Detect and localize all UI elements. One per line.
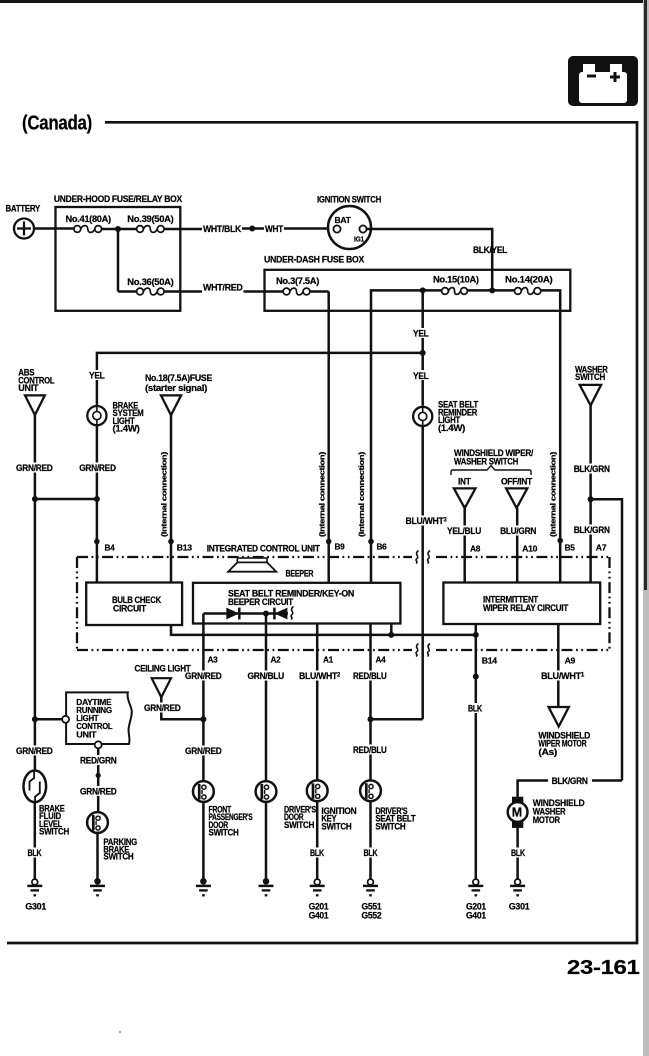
ground (driver door, case)	[259, 878, 274, 895]
node B14 splice	[473, 674, 479, 680]
ground G201 G401 (ignition)	[309, 879, 329, 920]
wire brake fluid switch to ground	[34, 802, 37, 879]
svg-text:UNDER-DASH FUSE BOX: UNDER-DASH FUSE BOX	[264, 255, 364, 265]
node pin B4	[94, 539, 100, 545]
break mark diode bus internal	[291, 607, 294, 620]
svg-text:(Internal connection): (Internal connection)	[160, 451, 169, 537]
svg-text:B6: B6	[377, 542, 388, 552]
svg-text:B5: B5	[565, 543, 576, 553]
ignition switch SW1	[317, 195, 381, 250]
node GRN/RED right	[94, 496, 100, 502]
wire brake light to B4	[96, 425, 99, 582]
fuse No.14(20A)	[505, 275, 553, 295]
wire WHT/RED into under-dash box	[244, 290, 284, 293]
svg-text:No.14(20A): No.14(20A)	[505, 275, 553, 285]
svg-text:YEL: YEL	[413, 371, 429, 381]
svg-text:SWITCH: SWITCH	[375, 821, 405, 831]
svg-text:(As): (As)	[538, 747, 557, 757]
wire label GRN/RED (B4 branch)	[78, 463, 118, 473]
wire ABS to junction	[34, 415, 37, 499]
svg-text:BAT: BAT	[335, 216, 351, 225]
svg-text:BLK: BLK	[364, 848, 379, 858]
svg-text:WHT/RED: WHT/RED	[203, 283, 243, 293]
wire BLU/WHT3 to A4	[371, 718, 423, 721]
windshield wiper/washer switch SW2	[451, 448, 534, 508]
wire YEL drop from under-dash box	[421, 290, 424, 405]
svg-text:RED/BLU: RED/BLU	[353, 745, 387, 755]
wire fuse15 to fuse14	[467, 289, 514, 292]
battery icon (page corner symbol)	[568, 56, 638, 106]
wire B14 drop	[475, 624, 478, 879]
wire B6 drop (under-dash bus to ICU B6)	[371, 290, 442, 582]
terminal DRL left (open circle)	[62, 716, 69, 723]
wire label BLK/GRN (upper)	[573, 464, 611, 474]
svg-text:BEEPER: BEEPER	[286, 569, 314, 579]
ground G301 (brake fluid)	[25, 879, 46, 911]
wire label BLU/WHT1 (A9)	[540, 671, 585, 681]
wire fuse36 to WHT/RED label	[164, 290, 202, 293]
svg-text:UNIT: UNIT	[18, 383, 39, 393]
svg-text:BLK/GRN: BLK/GRN	[574, 525, 610, 535]
svg-text:(Internal connection): (Internal connection)	[357, 451, 366, 537]
wire label BLK (brake fluid)	[26, 848, 43, 858]
wire to DRL unit terminal	[35, 718, 62, 721]
diode D2	[274, 608, 287, 620]
break mark bottom left	[416, 644, 419, 657]
wire washer branch to right side drop	[591, 499, 622, 780]
wire fuse3 to corner	[310, 290, 329, 293]
wire label GRN/RED (ceiling)	[143, 703, 183, 714]
svg-text:INT: INT	[458, 476, 471, 486]
wire YEL horizontal bus to brake system light	[97, 353, 423, 407]
wire seat belt box stub to bus	[390, 624, 393, 635]
front passenger's door switch SW5	[193, 781, 253, 838]
integrated control unit dashed border left	[76, 557, 78, 650]
wire fuse39 to WHT/BLK label	[164, 228, 202, 231]
beeper BZ1	[228, 558, 314, 579]
seat belt reminder/key-on beeper circuit box	[193, 583, 400, 624]
svg-text:OFF/INT: OFF/INT	[501, 476, 533, 486]
wire front passenger door switch to ground	[202, 802, 205, 879]
wire label GRN/RED (brake fluid)	[15, 746, 54, 756]
node pin B9	[326, 539, 332, 545]
integrated control unit dashed border right	[608, 557, 610, 650]
svg-text:No.3(7.5A): No.3(7.5A)	[276, 276, 319, 286]
wire washer motor to ground	[516, 828, 519, 879]
wire B5 drop (fuse14 to ICU B5)	[541, 290, 560, 582]
daytime running light control unit	[66, 692, 132, 744]
battery B1	[6, 204, 41, 239]
ground (parking brake, case)	[90, 878, 105, 895]
brake system light L1 (1.4W)	[87, 400, 143, 433]
svg-text:SWITCH: SWITCH	[575, 372, 605, 382]
svg-text:GRN/RED: GRN/RED	[185, 671, 222, 681]
svg-text:UNDER-HOOD FUSE/RELAY BOX: UNDER-HOOD FUSE/RELAY BOX	[54, 194, 182, 204]
windshield wiper motor connector	[538, 707, 590, 757]
wire BLK/GRN washer motor feed	[592, 779, 622, 782]
wire ABS junction down to daytime running light unit	[34, 499, 37, 771]
svg-text:A3: A3	[208, 655, 219, 665]
svg-text:GRN/RED: GRN/RED	[185, 746, 222, 756]
node pin B13	[168, 539, 174, 545]
wire label GRN/RED (A3 upper)	[184, 671, 224, 681]
svg-text:A9: A9	[565, 656, 576, 666]
integrated control unit dashed border top	[77, 556, 412, 558]
svg-text:(1.4W): (1.4W)	[113, 424, 140, 434]
fuse No.36(50A)	[127, 277, 174, 295]
break mark bottom right	[428, 644, 431, 657]
svg-text:GRN/RED: GRN/RED	[16, 463, 53, 473]
wire label BLK (washer motor)	[510, 848, 527, 858]
svg-text:SWITCH: SWITCH	[103, 852, 133, 862]
svg-text:SWITCH: SWITCH	[39, 827, 69, 837]
svg-text:B14: B14	[482, 656, 498, 666]
integrated control unit dashed border bottom	[77, 649, 412, 651]
svg-text:RED/GRN: RED/GRN	[80, 755, 117, 765]
svg-text:No.15(10A): No.15(10A)	[433, 275, 479, 285]
svg-text:BLK: BLK	[28, 848, 43, 858]
wire bulb check output bus	[171, 625, 476, 635]
svg-text:No.36(50A): No.36(50A)	[127, 277, 174, 287]
seat belt reminder light L2 (1.4W)	[413, 400, 479, 433]
node pin B6	[368, 539, 374, 545]
wire label BLK (ignition)	[309, 848, 326, 858]
ceiling light connector	[135, 664, 192, 698]
svg-text:CIRCUIT: CIRCUIT	[113, 604, 147, 614]
svg-text:GRN/RED: GRN/RED	[80, 786, 117, 796]
svg-text:MOTOR: MOTOR	[533, 815, 561, 825]
svg-text:BLU/WHT2: BLU/WHT2	[299, 671, 341, 681]
driver's seat belt switch SW8	[360, 780, 416, 831]
node ABS wire / DRL branch	[32, 716, 38, 722]
wire label BLK (B14)	[467, 703, 483, 713]
diode D1	[226, 608, 239, 620]
wire battery to under-hood fuse/relay box	[34, 227, 74, 230]
svg-text:GRN/RED: GRN/RED	[144, 703, 181, 713]
wire washer switch to A7	[589, 405, 592, 582]
svg-text:23-161: 23-161	[567, 956, 640, 979]
wire seat belt switch to ground	[369, 801, 372, 879]
node pin B5	[557, 538, 563, 544]
svg-text:WHT/BLK: WHT/BLK	[203, 224, 242, 234]
wire INT to A8	[463, 508, 466, 582]
svg-text:GRN/BLU: GRN/BLU	[248, 671, 285, 681]
node washer switch branch	[588, 496, 594, 502]
wire WHT/BLK to WHT	[242, 227, 264, 230]
wire to fuse No.36	[118, 290, 137, 293]
fuse No.3(7.5A)	[276, 276, 319, 295]
wire label BLU/WHT3	[405, 516, 448, 527]
svg-text:UNIT: UNIT	[76, 730, 97, 740]
node YEL tap in under-dash box	[420, 287, 426, 293]
wire ignition key switch to ground	[316, 801, 319, 879]
svg-text:INTEGRATED CONTROL UNIT: INTEGRATED CONTROL UNIT	[207, 544, 321, 554]
wire A9 drop	[557, 624, 560, 707]
svg-text:A2: A2	[271, 655, 282, 665]
svg-text:No.39(50A): No.39(50A)	[127, 214, 174, 224]
svg-text:BLU/WHT3: BLU/WHT3	[406, 516, 448, 526]
scan edge right strip	[643, 0, 649, 1056]
svg-text:G401: G401	[466, 910, 486, 920]
brake fluid level switch SW3	[24, 771, 70, 837]
wire label GRN/BLU (A2)	[247, 671, 286, 681]
svg-text:B9: B9	[335, 542, 346, 552]
node BLK/YEL joins bus	[489, 287, 495, 293]
ground G551 G552 (seat belt)	[362, 879, 382, 920]
wire label YEL (left branch)	[88, 370, 106, 381]
svg-text:A4: A4	[376, 655, 387, 665]
wire A1 drop	[316, 624, 319, 781]
svg-text:YEL/BLU: YEL/BLU	[447, 526, 481, 536]
svg-text:GRN/RED: GRN/RED	[79, 463, 116, 473]
ground G301 (washer motor)	[509, 879, 530, 911]
svg-text:BLU/GRN: BLU/GRN	[500, 526, 536, 536]
wire label GRN/RED (parking)	[79, 786, 119, 796]
terminal DRL bottom (open circle)	[95, 741, 102, 748]
svg-text:(Canada): (Canada)	[22, 113, 92, 135]
svg-text:IG1: IG1	[354, 235, 364, 244]
fuse No.18(7.5A) connector	[145, 373, 212, 415]
svg-text:SWITCH: SWITCH	[209, 828, 239, 838]
wire B9 drop (No.3 fuse to ICU B9)	[327, 292, 330, 583]
svg-text:G301: G301	[509, 901, 530, 911]
wire DRL to parking brake switch	[97, 748, 100, 812]
svg-text:A7: A7	[596, 543, 607, 553]
svg-text:WIPER RELAY CIRCUIT: WIPER RELAY CIRCUIT	[483, 603, 569, 613]
node diode bus / A2	[263, 611, 269, 617]
wire WHT to ignition switch BAT	[284, 227, 333, 230]
svg-text:G552: G552	[362, 910, 382, 920]
wire A2 drop	[265, 614, 268, 781]
svg-text:BLK: BLK	[310, 848, 325, 858]
break mark top left	[416, 551, 419, 564]
svg-text:SWITCH: SWITCH	[321, 821, 351, 831]
page frame rule	[7, 122, 637, 943]
node ceiling/A3	[200, 716, 206, 722]
svg-text:WASHER SWITCH: WASHER SWITCH	[454, 456, 518, 466]
fuse No.39(50A)	[127, 214, 174, 233]
svg-text:BLK/YEL: BLK/YEL	[473, 245, 508, 255]
node bus/B14	[473, 632, 479, 638]
wire label BLK (seat belt)	[362, 848, 379, 858]
wire A3 drop	[202, 614, 205, 781]
scan edge top bar	[0, 0, 649, 3]
wire label RED/BLU (A4 lower)	[352, 745, 390, 755]
node A4/BLU-WHT3 join	[368, 716, 374, 722]
wire label BLK/GRN (lower)	[573, 525, 611, 536]
wire No.18 fuse to B13	[170, 415, 173, 582]
wire label YEL/BLU	[446, 526, 482, 537]
svg-text:WHT: WHT	[265, 224, 284, 234]
node splice WHT/BLK-WHT	[249, 226, 255, 232]
svg-text:YEL: YEL	[89, 371, 105, 381]
svg-text:YEL: YEL	[413, 329, 429, 339]
ground (front passenger door, case)	[196, 878, 211, 895]
driver's door switch SW6	[256, 781, 317, 830]
wire A4 drop	[369, 624, 372, 781]
svg-text:No.41(80A): No.41(80A)	[66, 214, 112, 224]
wire label BLU/GRN	[499, 526, 537, 537]
scan speck	[119, 1031, 121, 1033]
svg-text:BLU/WHT1: BLU/WHT1	[541, 671, 585, 681]
wire label RED/GRN	[79, 755, 118, 765]
svg-text:(Internal connection): (Internal connection)	[549, 451, 558, 537]
node GRN/RED left	[32, 496, 38, 502]
wire IG1 to BLK/YEL drop	[367, 229, 493, 288]
svg-text:SWITCH: SWITCH	[284, 820, 314, 830]
svg-text:A10: A10	[522, 544, 538, 554]
svg-text:G301: G301	[25, 901, 46, 911]
svg-text:M: M	[512, 806, 522, 820]
node RED/GRN splice	[96, 773, 101, 778]
washer switch connector	[575, 364, 608, 405]
svg-text:RED/BLU: RED/BLU	[353, 671, 387, 681]
windshield washer motor M1	[508, 797, 585, 828]
svg-text:BEEPER CIRCUIT: BEEPER CIRCUIT	[228, 597, 294, 607]
wire ceiling light to A3	[161, 697, 203, 719]
svg-text:(Internal connection): (Internal connection)	[318, 451, 327, 537]
ignition key switch SW7	[307, 780, 357, 831]
svg-text:No.18(7.5A)FUSE: No.18(7.5A)FUSE	[145, 373, 212, 383]
svg-text:BLK/GRN: BLK/GRN	[574, 464, 610, 474]
wire label GRN/RED (ABS)	[15, 463, 54, 473]
parking brake switch SW4	[87, 812, 137, 862]
svg-text:CEILING LIGHT: CEILING LIGHT	[135, 664, 192, 674]
svg-text:G401: G401	[309, 910, 329, 920]
ABS control unit connector	[18, 368, 55, 416]
svg-text:A8: A8	[470, 544, 481, 554]
fuse No.41(80A)	[66, 214, 112, 233]
wire parking brake switch to ground	[96, 833, 99, 879]
wire driver door switch to ground	[265, 802, 268, 879]
svg-text:BLK: BLK	[468, 703, 483, 713]
svg-text:B4: B4	[105, 543, 116, 553]
svg-text:B13: B13	[177, 543, 193, 553]
wire label RED/BLU (A4 upper)	[352, 671, 390, 681]
break mark top right	[428, 551, 431, 564]
wire fuse36 branch down	[117, 229, 120, 292]
svg-text:IGNITION SWITCH: IGNITION SWITCH	[317, 195, 381, 205]
node junction under-hood bus	[115, 226, 121, 232]
wire label GRN/RED (A3 lower)	[184, 746, 224, 756]
wire GRN/RED crossover ABS to B4	[35, 498, 97, 501]
svg-text:BLK: BLK	[511, 848, 526, 858]
wire label BLU/WHT2 (A1)	[298, 671, 341, 681]
wire fuse41 to fuse39	[102, 228, 137, 231]
svg-text:(starter signal): (starter signal)	[145, 383, 207, 393]
svg-text:BLK/GRN: BLK/GRN	[552, 776, 588, 786]
wire label YEL (upper)	[412, 328, 431, 339]
ground G201 G401 (B14)	[466, 879, 486, 920]
svg-text:BATTERY: BATTERY	[6, 204, 41, 214]
wire label YEL (lower)	[412, 370, 431, 381]
wire diode bus in seat belt circuit	[203, 612, 288, 615]
wire OFF/INT to A10	[516, 508, 519, 582]
svg-text:A1: A1	[323, 655, 334, 665]
intermittent wiper relay circuit box	[443, 583, 600, 625]
bulb check circuit box	[86, 583, 182, 626]
svg-text:(1.4W): (1.4W)	[438, 423, 465, 433]
node stub/bus	[388, 632, 394, 638]
node YEL distribution	[420, 350, 426, 356]
svg-text:GRN/RED: GRN/RED	[16, 746, 53, 756]
fuse No.15(10A)	[433, 275, 479, 295]
wire seat belt light down (BLU/WHT3)	[421, 426, 424, 719]
